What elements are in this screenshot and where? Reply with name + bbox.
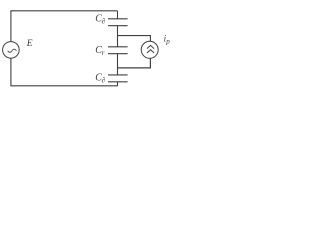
wire Cr to C0(bottom) with junction to detector (lower)	[117, 54, 119, 75]
detector chevron upper	[147, 45, 154, 48]
capacitor C0 (top)	[108, 18, 128, 20]
wire left upper	[10, 10, 12, 41]
AC source sine wave	[8, 49, 17, 52]
svg-text:p: p	[165, 37, 170, 45]
wire lower detector lead	[118, 58, 151, 68]
capacitor Cr (middle)	[108, 46, 128, 48]
detector circle	[141, 41, 158, 58]
svg-text:E: E	[26, 39, 33, 49]
capacitor C0 (bottom)	[108, 74, 128, 76]
wire bottom rail	[11, 85, 118, 87]
wire left lower	[10, 58, 12, 86]
wire top rail	[11, 10, 118, 12]
svg-text:∂: ∂	[102, 76, 106, 85]
wire upper detector lead	[118, 36, 151, 42]
wire C0 to Cr with junction to detector (upper)	[117, 26, 119, 47]
detector chevron lower	[147, 50, 154, 53]
AC source E circle	[3, 42, 20, 59]
svg-text:r: r	[102, 48, 105, 57]
wire capacitor branch: top rail to C0 top plate	[117, 11, 119, 19]
wire C0 bottom plate to bottom rail	[117, 82, 119, 86]
svg-text:∂: ∂	[102, 17, 106, 26]
